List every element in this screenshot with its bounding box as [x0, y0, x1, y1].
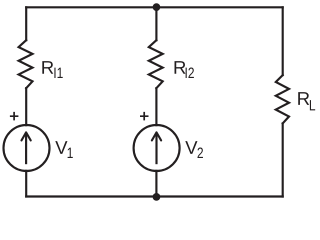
voltage source V2 circle: [134, 125, 180, 171]
wire right branch upper: [282, 7, 284, 75]
wire top rail: [26, 6, 283, 8]
node bottom junction: [153, 193, 161, 201]
plus sign V1: [10, 112, 19, 121]
node top junction: [153, 3, 161, 11]
wire left branch lower: [25, 171, 27, 197]
resistor RL: [276, 75, 289, 123]
wire left branch middle: [25, 88, 27, 125]
voltage source V1 circle: [4, 125, 50, 171]
wire middle branch lower: [155, 171, 157, 197]
wire left branch upper: [25, 7, 27, 40]
label V2: [185, 141, 197, 154]
plus sign V2: [140, 112, 149, 121]
voltage source V1 arrow: [25, 133, 27, 164]
resistor RI1: [19, 40, 33, 88]
label V1: [55, 141, 67, 154]
wire bottom rail: [26, 195, 283, 197]
voltage source V2 arrow: [155, 133, 157, 164]
wire right branch lower: [282, 123, 284, 196]
label RI1: [42, 61, 53, 74]
label RI2: [175, 61, 186, 74]
wire middle branch upper: [155, 7, 157, 40]
resistor RI2: [149, 40, 163, 88]
wire middle branch middle: [155, 88, 157, 125]
label RL: [298, 92, 309, 105]
